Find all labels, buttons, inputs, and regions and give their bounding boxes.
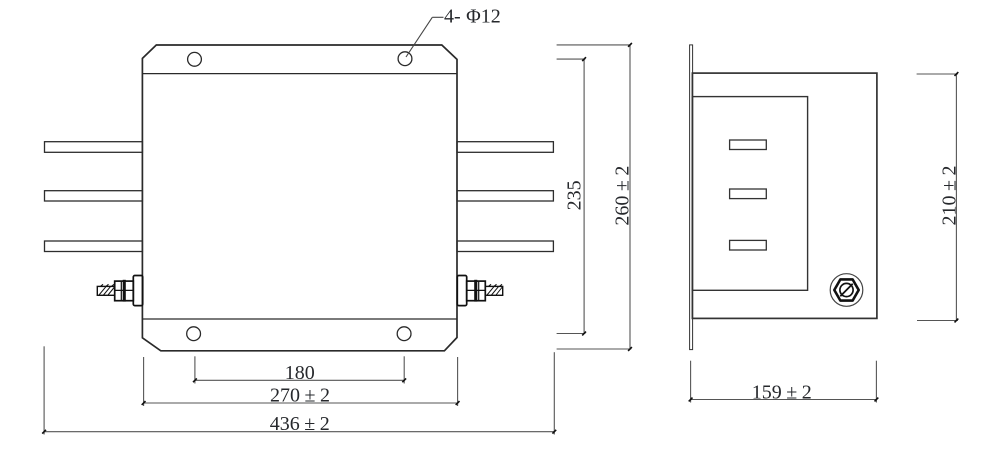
svg-text:4-Φ12: 4-Φ12 — [444, 6, 501, 28]
svg-text:210±2: 210±2 — [938, 166, 960, 226]
svg-text:260±2: 260±2 — [612, 166, 634, 226]
svg-text:159±2: 159±2 — [752, 381, 812, 403]
svg-text:270±2: 270±2 — [270, 384, 330, 406]
svg-text:180: 180 — [285, 362, 315, 384]
svg-text:235: 235 — [564, 180, 586, 210]
svg-text:436±2: 436±2 — [270, 413, 330, 435]
